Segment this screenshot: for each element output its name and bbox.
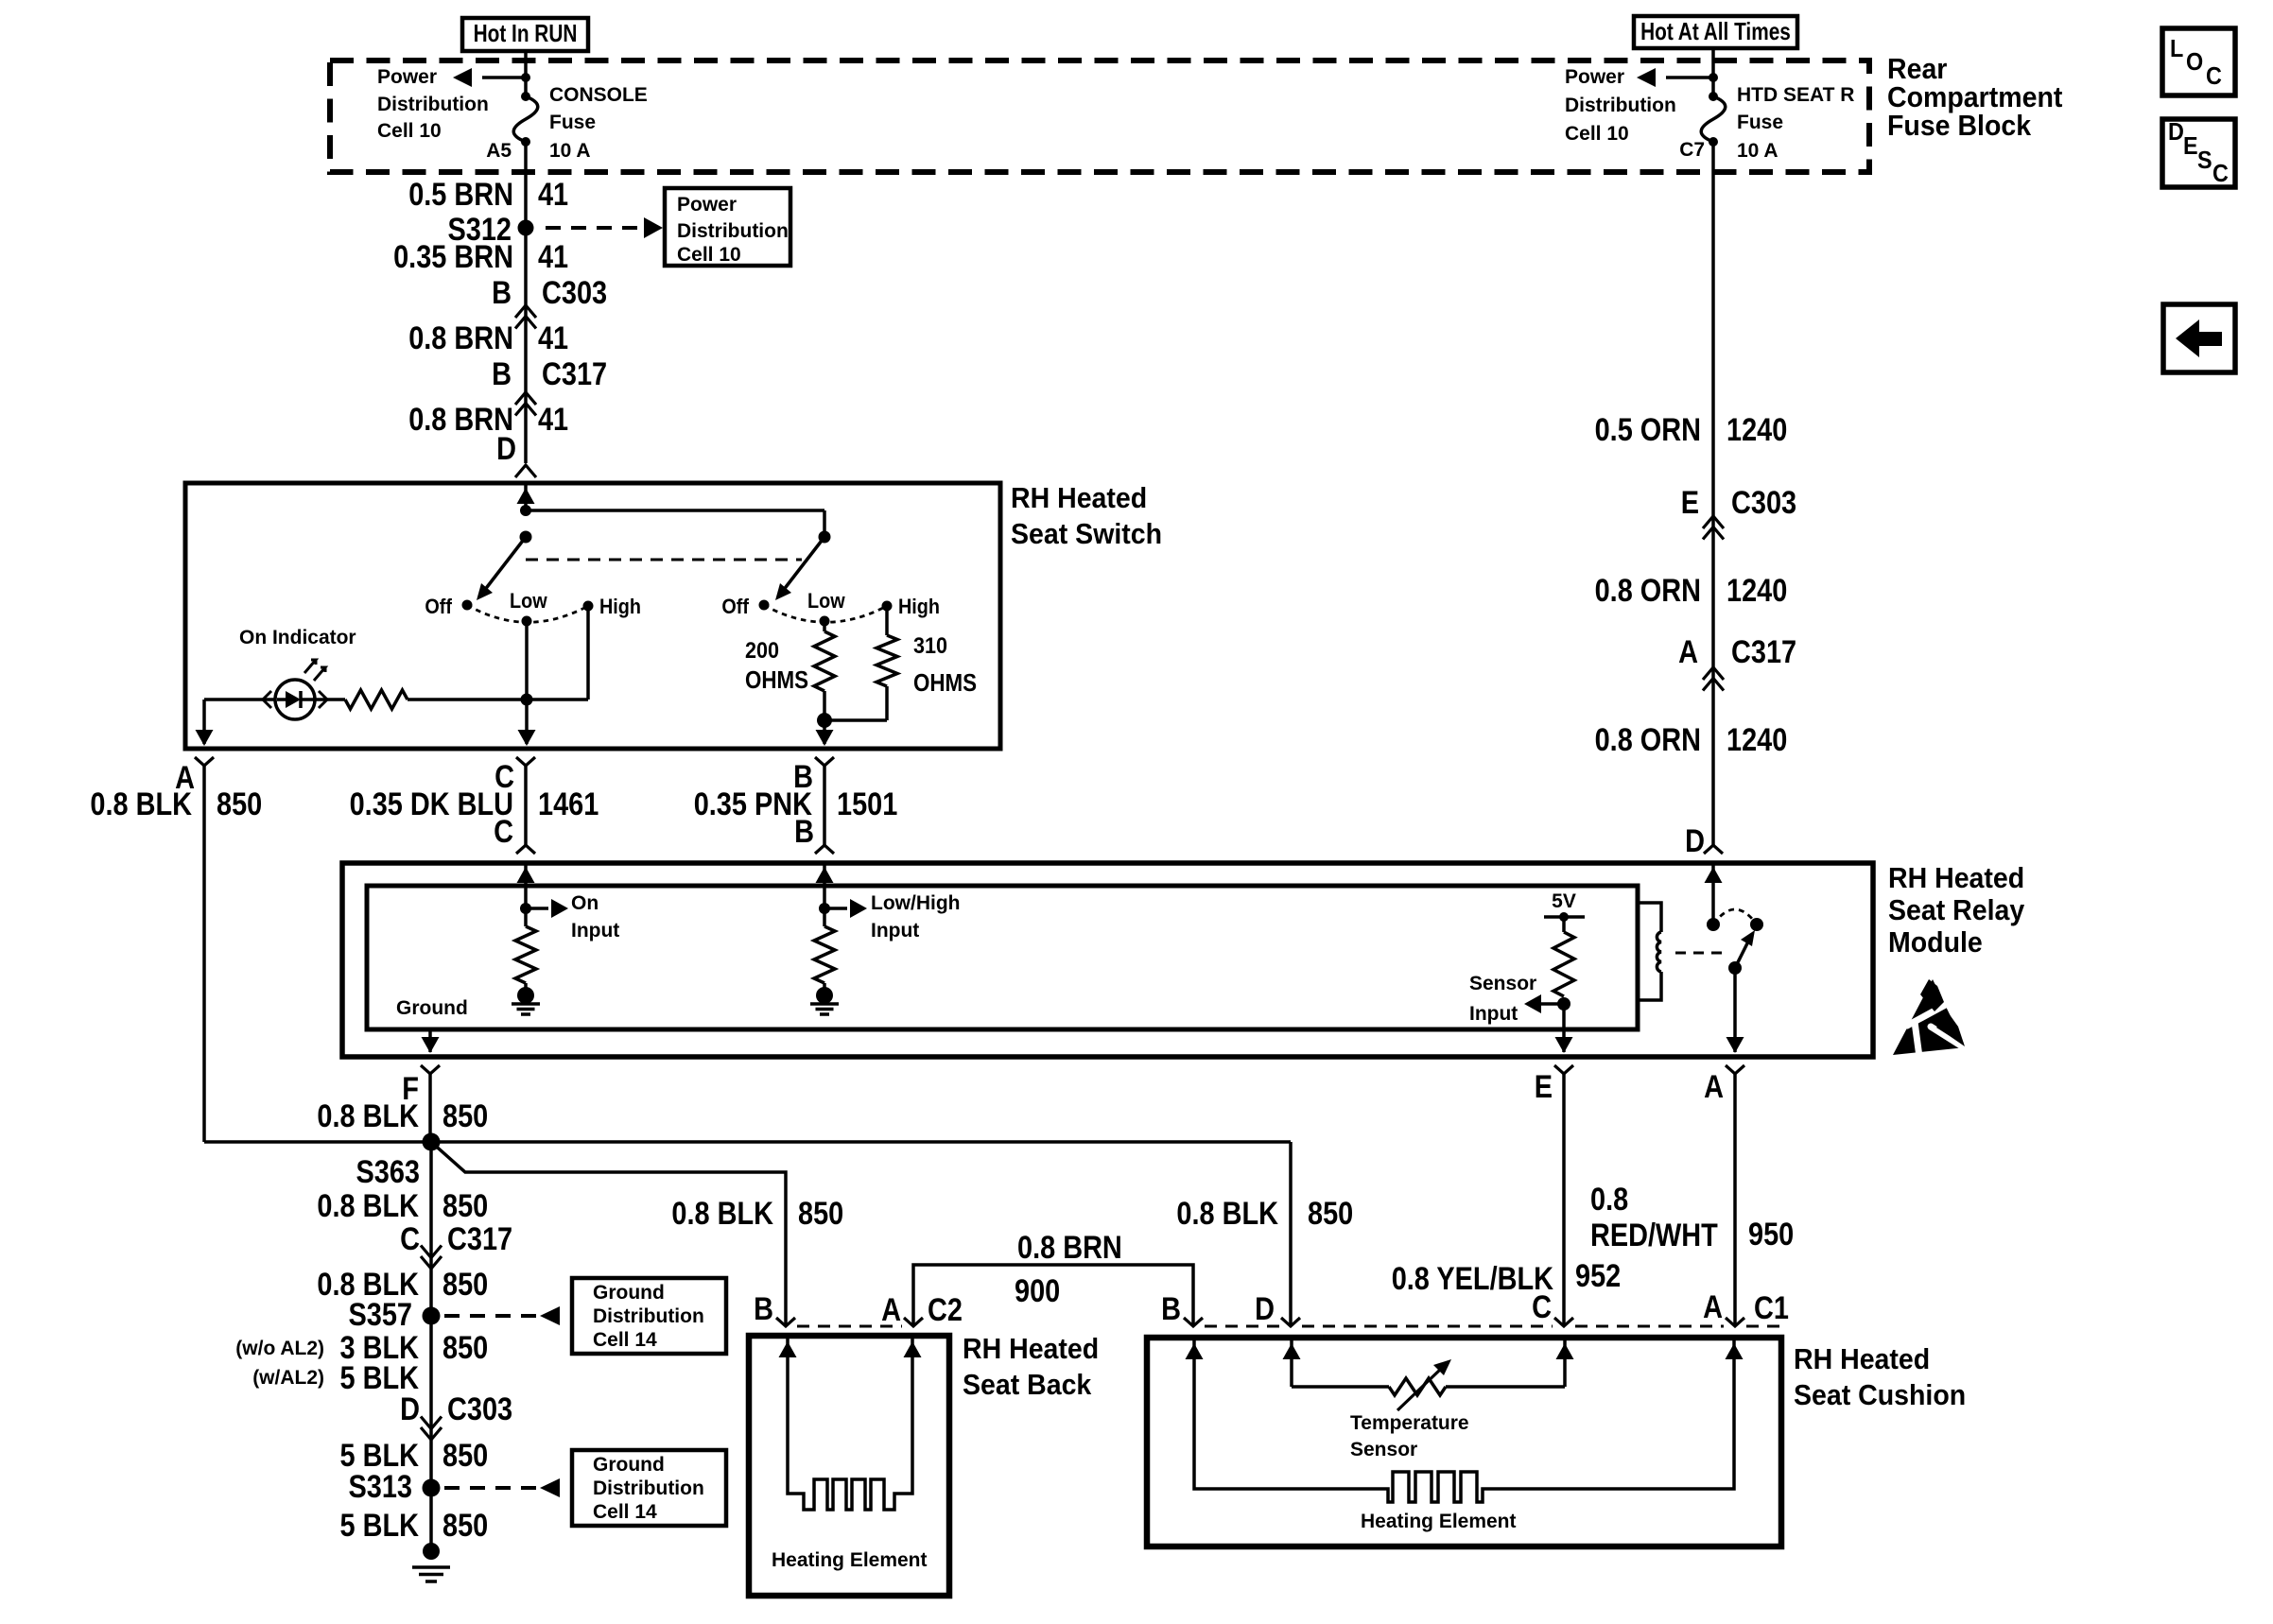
svg-text:B: B [754,1291,773,1327]
svg-text:Power: Power [1565,66,1624,88]
svg-text:0.8 YEL/BLK: 0.8 YEL/BLK [1392,1261,1554,1297]
cushion pin entry arrows [1186,1343,1204,1359]
svg-text:Off: Off [721,595,749,618]
svg-text:850: 850 [442,1188,488,1224]
svg-text:41: 41 [538,320,568,356]
svg-text:L: L [2170,34,2183,62]
svg-text:C303: C303 [542,275,607,311]
switch arm 1 (left) [520,531,532,544]
legend box: back arrow [2163,304,2235,372]
svg-text:1240: 1240 [1726,573,1787,609]
svg-text:1240: 1240 [1726,412,1787,448]
svg-text:Input: Input [1469,1003,1518,1025]
svg-text:Distribution: Distribution [593,1477,704,1499]
svg-text:Seat Relay: Seat Relay [1888,893,2025,926]
svg-text:Seat Switch: Seat Switch [1011,517,1162,550]
svg-text:Heating Element: Heating Element [772,1549,928,1571]
svg-text:Off: Off [425,595,452,618]
svg-text:D: D [2168,117,2184,146]
ESD sensitivity symbol [1893,979,1966,1055]
svg-text:0.5 BRN: 0.5 BRN [408,177,513,213]
svg-text:Module: Module [1888,925,1983,959]
svg-text:C317: C317 [542,356,607,392]
legend box: LOC [2162,28,2235,95]
svg-text:High: High [898,595,940,618]
resistor 200 OHMS [823,621,826,631]
svg-text:S313: S313 [349,1469,413,1505]
svg-text:41: 41 [538,402,568,438]
svg-text:C: C [2212,159,2229,187]
wire: relay ground output [428,1029,432,1052]
wire: Low contact to output C [525,621,529,744]
splice S312 [518,220,534,236]
wire: High contact to junction [586,606,590,700]
svg-text:Distribution: Distribution [593,1305,704,1327]
wire: switch C to relay [524,766,528,845]
svg-text:Seat Cushion: Seat Cushion [1794,1378,1966,1411]
svg-text:850: 850 [442,1438,488,1474]
splice S313 [423,1479,441,1497]
contact Low (right switch) [820,616,830,627]
contact Low (left switch) [522,616,532,627]
svg-text:0.8 BLK: 0.8 BLK [317,1098,419,1134]
svg-text:Input: Input [871,920,919,942]
cushion pin B half-connector [1184,1318,1203,1326]
svg-text:A: A [1678,634,1698,670]
relay pin B entry / Low-High Input [823,863,826,908]
svg-text:1501: 1501 [837,786,897,822]
seat back pin A half-connector [904,1318,923,1326]
relay module inner box [367,886,1638,1029]
svg-text:OHMS: OHMS [913,668,977,697]
pin D entry arrow [524,483,528,510]
svg-text:HTD SEAT R: HTD SEAT R [1737,84,1854,106]
switch pin C [516,757,535,766]
svg-text:RED/WHT: RED/WHT [1590,1218,1718,1253]
svg-text:D: D [400,1391,420,1427]
svg-text:B: B [1161,1291,1181,1327]
svg-text:S363: S363 [356,1154,421,1190]
svg-text:D: D [1255,1291,1275,1327]
svg-text:Distribution: Distribution [377,94,489,115]
resistor (LED series) [345,690,408,709]
svg-text:A: A [1704,1069,1724,1105]
relay switch: dashed travel arc [1713,909,1757,924]
seat back heating element [779,1341,797,1357]
relay pin E [1554,1065,1573,1074]
reference box: Ground Distribution Cell 14 (lower) [572,1450,726,1526]
wire: seat back A to cushion B (circuit 900) [913,1265,1193,1326]
svg-text:Hot At All Times: Hot At All Times [1640,17,1791,45]
svg-text:Low/High: Low/High [871,892,961,914]
relay switch: normally-open contact [1750,918,1763,931]
svg-text:C: C [400,1221,420,1257]
svg-text:C303: C303 [1731,485,1796,521]
wire: switch A ground run to splice [204,1140,430,1144]
svg-text:(w/o AL2): (w/o AL2) [235,1338,324,1359]
svg-text:E: E [2183,131,2198,160]
svg-text:C303: C303 [447,1391,512,1427]
svg-text:200: 200 [745,638,779,664]
wire: armature to pin A [1733,968,1737,1052]
seat back pin B half-connector [776,1318,795,1326]
node: LED/resistor junction [521,694,533,706]
node: power distribution tap (right) [1709,73,1718,82]
svg-text:B: B [492,275,512,311]
wire: battery feed (right) [1711,48,1715,96]
legend box: DESC [2162,119,2235,187]
reference box: Ground Distribution Cell 14 (upper) [572,1278,726,1354]
svg-text:950: 950 [1748,1217,1794,1253]
svg-text:S357: S357 [349,1297,413,1333]
dashed detent arc (left switch) [467,605,588,622]
svg-text:Power: Power [377,66,437,88]
ground G303 [423,1543,440,1560]
svg-text:C1: C1 [1754,1290,1789,1326]
wire: switch B to relay [823,766,826,845]
relay pin C entry / On Input [524,863,528,908]
splice S363 [423,1133,441,1151]
svg-text:Cell 10: Cell 10 [377,120,442,142]
fuse: HTD SEAT R Fuse 10 A [1709,92,1718,101]
svg-text:O: O [2186,47,2203,76]
cushion pin D half-connector [1281,1318,1300,1326]
svg-text:0.8 ORN: 0.8 ORN [1595,573,1701,609]
wire: LED to pin A [204,698,275,701]
svg-text:0.8 BRN: 0.8 BRN [1017,1230,1122,1266]
svg-text:RH Heated: RH Heated [963,1332,1099,1365]
svg-text:CONSOLE: CONSOLE [549,84,648,106]
svg-text:C317: C317 [1731,634,1796,670]
svg-text:C7: C7 [1679,139,1705,161]
svg-text:Low: Low [807,589,845,613]
svg-text:Heating Element: Heating Element [1361,1511,1517,1532]
svg-text:Fuse Block: Fuse Block [1887,109,2032,142]
svg-text:850: 850 [442,1508,488,1544]
svg-text:RH Heated: RH Heated [1794,1342,1930,1375]
dashed detent arc (right switch) [764,605,887,622]
wire: ground chain S363 to S357 [429,1142,433,1316]
svg-text:S: S [2197,146,2212,174]
svg-text:C2: C2 [928,1292,963,1328]
node: resistor junction [817,713,832,728]
svg-text:850: 850 [442,1098,488,1134]
fuse: CONSOLE Fuse 10 A [521,92,530,101]
svg-text:41: 41 [538,177,568,213]
svg-text:Sensor: Sensor [1350,1439,1417,1460]
component box: RH Heated Seat Switch [185,483,1000,749]
svg-text:0.35 DK BLU: 0.35 DK BLU [350,786,513,822]
component box: RH Heated Seat Back [749,1336,949,1596]
svg-text:850: 850 [1308,1196,1353,1232]
svg-text:Hot In RUN: Hot In RUN [474,19,578,47]
svg-text:310: 310 [913,633,947,659]
relay coil [1638,903,1661,932]
switch pin A [195,757,214,766]
svg-text:0.8 BLK: 0.8 BLK [671,1196,773,1232]
contact Off (right switch) [759,600,770,611]
svg-text:0.5 ORN: 0.5 ORN [1595,412,1701,448]
wire: relay A to cushion A [1733,1074,1737,1326]
wire: C303 to splice S313 [429,1440,433,1551]
svg-text:C: C [494,814,513,850]
svg-text:Ground: Ground [593,1454,665,1476]
rear compartment fuse block (dashed box) [330,60,1869,172]
svg-text:0.8 BRN: 0.8 BRN [408,320,513,356]
relay pin A (output) [1726,1065,1744,1074]
cushion pin A half-connector [1726,1318,1744,1326]
switch pin B [815,757,834,766]
svg-text:Fuse: Fuse [1737,112,1783,133]
svg-text:Seat Back: Seat Back [963,1368,1092,1401]
contact High (left switch) [583,601,594,612]
svg-text:Cell 10: Cell 10 [1565,123,1629,145]
wire: relay E to cushion C [1562,1074,1566,1326]
svg-text:Cell 14: Cell 14 [593,1501,657,1523]
svg-text:E: E [1681,485,1699,521]
svg-text:0.8 BLK: 0.8 BLK [90,786,192,822]
cushion pin C half-connector [1554,1318,1573,1326]
switch arm 2 (right) [819,531,831,544]
svg-text:1461: 1461 [538,786,599,822]
wire: circuit 1240 down to relay [1711,142,1715,845]
svg-text:D: D [496,431,516,467]
svg-text:0.8 BLK: 0.8 BLK [1176,1196,1278,1232]
svg-text:B: B [492,356,512,392]
wire: S357 to C303 [429,1316,433,1440]
svg-text:Distribution: Distribution [1565,95,1676,116]
wire: relay F to splice S363 [428,1074,432,1142]
svg-text:E: E [1535,1069,1553,1105]
ground (On input) [524,983,528,990]
svg-text:Cell 10: Cell 10 [677,244,741,266]
svg-text:952: 952 [1575,1258,1621,1294]
svg-text:900: 900 [1015,1273,1060,1309]
relay pin F [421,1065,440,1074]
resistor 310 OHMS [885,606,889,635]
cushion heating element [1194,1338,1734,1502]
wire: pin A to ground run [202,766,206,1142]
svg-text:850: 850 [798,1196,843,1232]
pull-down resistor (Low/High input) [823,908,826,926]
wire: circuit 41 down to switch [524,142,528,463]
svg-text:Distribution: Distribution [677,220,789,242]
svg-text:Sensor: Sensor [1469,973,1536,994]
svg-text:(w/AL2): (w/AL2) [252,1367,324,1389]
temperature sensor (variable resistor) [1290,1338,1293,1387]
svg-text:Low: Low [510,589,547,613]
label box: Hot In RUN [462,18,588,51]
component box: RH Heated Seat Relay Module (outer) [342,863,1873,1057]
node: sensor input junction [1557,997,1570,1011]
reference box: Power Distribution Cell 10 [665,188,790,266]
svg-text:C317: C317 [447,1221,512,1257]
relay switch: dashed link to coil [1675,952,1728,955]
svg-text:On: On [571,892,599,914]
svg-text:Cell 14: Cell 14 [593,1329,657,1351]
svg-text:Temperature: Temperature [1350,1412,1469,1434]
svg-text:B: B [794,814,814,850]
svg-text:High: High [599,595,641,618]
svg-text:10 A: 10 A [1737,140,1778,162]
svg-text:RH Heated: RH Heated [1888,861,2024,894]
svg-text:On Indicator: On Indicator [239,627,356,648]
svg-text:D: D [1685,823,1705,859]
svg-text:A: A [881,1292,901,1328]
wire: sensor to pin E [1562,1004,1566,1052]
svg-text:41: 41 [538,239,568,275]
svg-text:0.8: 0.8 [1590,1182,1628,1218]
svg-text:0.8 ORN: 0.8 ORN [1595,722,1701,758]
connector C1 dashed line [1205,1325,1279,1328]
relay switch: pin D entry [1711,863,1715,924]
svg-text:A5: A5 [486,140,512,162]
svg-text:0.8 BLK: 0.8 BLK [317,1188,419,1224]
svg-text:A: A [1703,1289,1723,1325]
contact High (right switch) [882,601,893,612]
svg-text:Input: Input [571,920,619,942]
svg-text:RH Heated: RH Heated [1011,481,1147,514]
contact Off (left switch) [462,600,473,611]
node: switch common junction [520,505,531,516]
mechanical link (dashed) [526,559,802,561]
svg-text:C: C [2206,61,2222,90]
node: power distribution tap (left) [521,73,530,82]
svg-text:850: 850 [442,1267,488,1303]
svg-text:Ground: Ground [593,1282,665,1304]
svg-text:5 BLK: 5 BLK [340,1508,420,1544]
wire: splice S363 to seat back pin B [431,1142,786,1326]
pull-down resistor (On input) [524,908,528,926]
svg-text:Fuse: Fuse [549,112,596,133]
svg-text:Power: Power [677,194,737,216]
ground (Low/High input) [823,983,826,990]
svg-text:Ground: Ground [396,997,468,1019]
svg-text:5V: 5V [1552,890,1576,912]
svg-text:850: 850 [217,786,262,822]
svg-text:10 A: 10 A [549,140,591,162]
svg-text:1240: 1240 [1726,722,1787,758]
svg-text:850: 850 [442,1330,488,1366]
label box: Hot At All Times [1634,16,1797,48]
component box: RH Heated Seat Cushion [1147,1338,1781,1546]
connector C2 dashed line [797,1325,902,1328]
splice S357 [423,1307,441,1325]
wire: Hot In RUN feed [524,51,528,96]
wire: splice S363 to cushion pin D [431,1140,1291,1144]
relay switch: armature [1728,961,1742,975]
svg-text:OHMS: OHMS [745,665,808,694]
svg-text:0.35 BRN: 0.35 BRN [393,239,513,275]
LED indicator [275,680,315,719]
